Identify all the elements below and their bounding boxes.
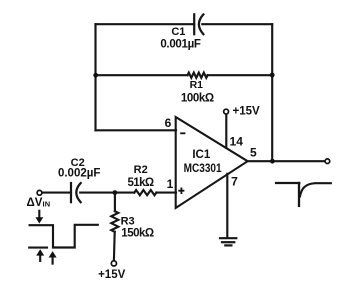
svg-text:100kΩ: 100kΩ — [181, 92, 214, 104]
svg-text:6: 6 — [165, 116, 172, 130]
svg-text:1: 1 — [167, 177, 174, 191]
svg-text:+15V: +15V — [98, 269, 126, 281]
svg-text:C1: C1 — [171, 26, 185, 38]
svg-text:0.001µF: 0.001µF — [160, 38, 201, 50]
svg-text:0.002µF: 0.002µF — [58, 168, 100, 180]
svg-text:51kΩ: 51kΩ — [127, 177, 153, 189]
svg-text:+15V: +15V — [233, 106, 261, 118]
svg-text:7: 7 — [231, 174, 238, 188]
svg-text:5: 5 — [250, 146, 257, 160]
svg-text:MC3301: MC3301 — [184, 163, 223, 175]
svg-text:IC1: IC1 — [192, 149, 211, 161]
svg-text:R3: R3 — [121, 216, 135, 228]
svg-text:ΔVIN: ΔVIN — [27, 197, 51, 209]
svg-text:R1: R1 — [190, 79, 204, 91]
svg-text:R2: R2 — [134, 164, 148, 176]
svg-text:150kΩ: 150kΩ — [121, 227, 154, 239]
svg-text:14: 14 — [230, 135, 244, 149]
